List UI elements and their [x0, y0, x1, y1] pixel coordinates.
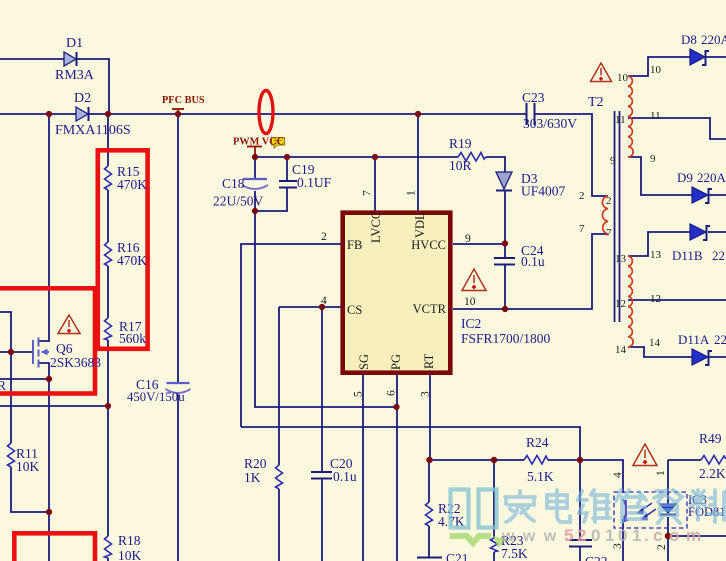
wire CS pin 4 [279, 306, 342, 308]
svg-text:D2: D2 [74, 91, 91, 106]
svg-text:10K: 10K [118, 548, 142, 561]
svg-text:560k: 560k [119, 331, 146, 346]
wire Q6 drain vertical from D2 junction [39, 114, 49, 341]
label R16 [117, 240, 147, 268]
resistor R22 [426, 502, 433, 526]
wire Q6 source to lower net [39, 363, 49, 561]
node VDL tap [415, 111, 421, 117]
wire VDL pin 1 drop [417, 114, 419, 212]
label C16 [127, 377, 185, 404]
diode D3 [496, 172, 512, 191]
node R11 bottom [46, 509, 52, 515]
node label D1 [55, 36, 95, 83]
optocoupler IC3 dashed box [614, 492, 687, 528]
annotation red box bottom left [14, 533, 95, 561]
resistor R18 [105, 536, 112, 558]
wire CS down through R20 [278, 307, 280, 465]
label C18 [213, 176, 264, 209]
wire C20 bottom [321, 478, 323, 561]
svg-text:7.5K: 7.5K [501, 546, 528, 561]
label D11A [678, 332, 726, 347]
svg-text:FMXA1106S: FMXA1106S [55, 123, 131, 138]
svg-text:5: 5 [353, 391, 365, 397]
svg-text:220A: 220A [697, 170, 726, 185]
label IC2 [461, 316, 551, 346]
capacitor C20 [311, 472, 332, 479]
svg-text:R20: R20 [244, 456, 267, 471]
label D8 [681, 32, 726, 47]
svg-text:7: 7 [579, 223, 585, 235]
annotation red ellipse PWM VCC [259, 91, 273, 134]
svg-text:10K: 10K [16, 459, 40, 474]
transformer T2 core [615, 111, 620, 322]
optocoupler IC3 light arrows [638, 503, 656, 520]
label R20 [244, 456, 267, 485]
svg-text:11: 11 [650, 110, 661, 122]
transformer T2 primary winding pins 2-7 [602, 196, 608, 234]
label C24 [521, 243, 545, 269]
label R18 [118, 533, 142, 561]
wire C24 bottom to VCTR node [504, 264, 506, 309]
wire gate line from left edge [0, 351, 32, 353]
svg-text:FB: FB [347, 238, 362, 252]
wire D1 anode from left edge [0, 58, 64, 60]
svg-text:7: 7 [606, 227, 612, 239]
svg-text:2SK3683: 2SK3683 [50, 355, 101, 370]
svg-text:D11B: D11B [672, 248, 703, 263]
label C20 [330, 456, 357, 484]
svg-text:303/630V: 303/630V [523, 116, 577, 131]
wire LVCC pin 7 drop [374, 157, 376, 212]
svg-text:22U/50V: 22U/50V [213, 194, 264, 209]
label R19 [449, 136, 472, 173]
wire R18 bottom [107, 558, 109, 561]
svg-text:10: 10 [464, 296, 476, 308]
node D1-D2 cathode junction [105, 111, 111, 117]
wire D3 cathode to HVCC node [504, 191, 506, 258]
wire SG pin 5 down [362, 373, 364, 561]
wire D11A cathode out [708, 356, 726, 358]
svg-text:1: 1 [406, 190, 418, 196]
svg-text:VCTR: VCTR [413, 302, 447, 316]
capacitor C16 electrolytic [166, 383, 191, 393]
svg-text:9: 9 [465, 233, 471, 245]
annotation red box R15-R17 [98, 150, 148, 348]
svg-text:13: 13 [650, 249, 662, 261]
svg-text:220A: 220A [701, 32, 726, 47]
resistor R49 [701, 456, 726, 465]
svg-text:12: 12 [615, 298, 626, 310]
wire node to R18 [107, 406, 109, 536]
wire R19 right to D3 [486, 157, 505, 172]
node Q6 source [46, 376, 52, 382]
wire D2 row / PFC bus rail [0, 113, 76, 115]
diode D11B [690, 224, 710, 240]
wire opto pin2 out right [668, 535, 726, 537]
node C18 bottom [252, 208, 258, 214]
wire C22 branch [579, 460, 581, 539]
svg-text:LVCC: LVCC [369, 211, 383, 243]
svg-text:11: 11 [615, 114, 626, 126]
svg-text:D9: D9 [677, 170, 693, 185]
node VCTR / C24 [502, 306, 508, 312]
diode D1 [64, 52, 77, 66]
wire T2 pin11 out [628, 118, 726, 139]
svg-text:9: 9 [650, 153, 656, 165]
svg-text:5.1K: 5.1K [527, 469, 554, 484]
svg-text:1: 1 [655, 470, 667, 476]
label R22 [438, 501, 465, 529]
node PWM VCC / C18 [252, 154, 258, 160]
node D2 anode junction [46, 111, 52, 117]
resistor R16 [105, 242, 112, 266]
svg-text:CS: CS [347, 303, 362, 317]
svg-text:PWM VCC: PWM VCC [233, 137, 284, 148]
resistor R19 [458, 153, 486, 162]
wire FB long run to R24 right node [241, 427, 580, 460]
wire C19 bottom lead to C18 node [255, 187, 287, 211]
wire D8 cathode out [706, 56, 726, 58]
svg-text:14: 14 [649, 337, 661, 349]
label Q6 [50, 341, 101, 370]
resistor R24 [524, 456, 548, 465]
wire PWM ground drop to PG pin [255, 211, 396, 407]
node PFC BUS [175, 111, 181, 117]
transistor Q6 MOSFET [33, 338, 49, 368]
node R24 left / R23 [491, 457, 497, 463]
node PG ground tap [393, 404, 399, 410]
wire T2 pin14 jog to D11A [628, 347, 692, 357]
note icon yellow [272, 138, 285, 149]
svg-text:FOD817: FOD817 [688, 505, 726, 519]
wire PG pin 6 down [396, 373, 398, 561]
svg-text:1K: 1K [244, 470, 261, 485]
diode D8 [690, 49, 709, 65]
svg-text:D1: D1 [66, 36, 83, 51]
wire R20 bottom [278, 489, 280, 561]
svg-text:22: 22 [714, 332, 726, 347]
wire gate feed from left edge upper [0, 312, 11, 352]
node RT / R22 [426, 457, 432, 463]
svg-text:RT: RT [422, 353, 436, 369]
svg-text:12: 12 [650, 293, 661, 305]
label D9 [677, 170, 726, 185]
resistor R23 [491, 538, 498, 552]
svg-text:R19: R19 [449, 136, 472, 151]
net tie PWM VCC [247, 147, 262, 155]
transformer T2 secondary winding pins 13-12-14 [628, 256, 633, 347]
wire left edge to R18 node [0, 405, 108, 407]
svg-text:RM3A: RM3A [55, 68, 95, 83]
wire T2 pin9 jog to D9 [628, 157, 692, 195]
diode D11A [692, 349, 712, 365]
label R24 [526, 435, 554, 484]
annotation red box Q6 [0, 288, 95, 393]
resistor R15 [105, 166, 112, 190]
label C19 [292, 162, 332, 190]
label R17 [119, 319, 146, 346]
svg-text:R49: R49 [699, 431, 722, 446]
watermark text 520101 chars [505, 490, 726, 523]
wire R15 to R16 [107, 190, 109, 242]
label IC3 [688, 493, 726, 519]
warning triangle IC2 [462, 269, 486, 291]
svg-text:C22: C22 [585, 554, 608, 561]
wire T2 pin7 to VCTR rail [453, 234, 601, 309]
svg-text:FSFR1700/1800: FSFR1700/1800 [461, 331, 551, 346]
capacitor C21 [417, 557, 442, 559]
node CS / C20 tap [319, 304, 325, 310]
svg-text:9: 9 [610, 155, 616, 167]
svg-text:10: 10 [650, 64, 662, 76]
label D11B [672, 248, 725, 263]
node LVCC tap [372, 154, 378, 160]
svg-text:0.1u: 0.1u [521, 254, 545, 269]
svg-text:22: 22 [712, 248, 725, 263]
wire C18 top lead [254, 157, 256, 179]
capacitor C18 electrolytic [242, 179, 268, 189]
wire source node to left edge [0, 378, 49, 380]
optocoupler IC3 phototransistor [623, 499, 627, 522]
svg-text:0.1UF: 0.1UF [297, 175, 332, 190]
wire C16 bottom down [177, 393, 179, 561]
label R23 [501, 533, 528, 561]
svg-text:450V/150u: 450V/150u [127, 390, 185, 404]
wire opto LED anode from R49 rail [667, 460, 669, 504]
capacitor C22 [569, 540, 592, 547]
optocoupler IC3 LED [660, 504, 676, 515]
svg-text:PG: PG [389, 354, 403, 370]
svg-text:2: 2 [606, 195, 612, 207]
node C19 top [284, 154, 290, 160]
wire R22 branch [428, 460, 430, 502]
svg-text:D8: D8 [681, 32, 697, 47]
wire R22 to C21 [428, 526, 430, 557]
diode D9 [692, 187, 712, 203]
wire R49 left lead [668, 459, 701, 461]
svg-text:T2: T2 [588, 95, 604, 110]
svg-text:470K: 470K [117, 177, 147, 192]
svg-text:R: R [0, 378, 6, 393]
wire T2 pin10 jog to D8 [628, 57, 690, 76]
svg-text:14: 14 [615, 344, 627, 356]
svg-text:4: 4 [321, 295, 327, 307]
watermark www.520101.com [501, 526, 701, 545]
capacitor C23 [527, 103, 535, 125]
warning triangle T2 [591, 63, 612, 82]
svg-text:C18: C18 [222, 176, 245, 191]
wire D11B cathode out [708, 231, 726, 233]
capacitor C19 [279, 181, 297, 188]
svg-text:SG: SG [357, 354, 371, 370]
wire opto LED cathode [667, 517, 669, 561]
wire FB pin 2 [241, 244, 342, 427]
svg-text:10: 10 [617, 72, 629, 84]
watermark book icon [450, 490, 506, 549]
resistor R11 [8, 443, 15, 467]
resistor R17 [105, 318, 112, 340]
wire T2 pin12 out [628, 299, 726, 301]
wire C19 top lead [286, 157, 288, 181]
node label D2 [55, 91, 131, 138]
svg-text:2: 2 [579, 190, 585, 202]
svg-text:Q6: Q6 [56, 341, 73, 356]
wire C23 right to T2 pin2 [535, 114, 601, 196]
svg-text:PFC BUS: PFC BUS [162, 95, 205, 106]
svg-text:C21: C21 [446, 551, 469, 561]
node Q6 gate [8, 349, 14, 355]
wire T2 pin13 jog to D11B [628, 232, 690, 256]
svg-text:.com: .com [644, 526, 701, 545]
node R24 right / C22 [577, 457, 583, 463]
svg-text:VDL: VDL [413, 212, 427, 238]
wire R11 branch from gate node [10, 352, 12, 443]
svg-text:R18: R18 [118, 533, 141, 548]
wire C22 bottom [579, 547, 581, 561]
svg-text:R24: R24 [526, 435, 549, 450]
resistor R20 [276, 465, 283, 489]
wire D9 cathode out [709, 194, 726, 196]
capacitor C24 [494, 258, 515, 265]
wire C20 branch from CS node [321, 307, 323, 472]
label R15 [117, 164, 147, 192]
wire opto emitter down [622, 519, 624, 561]
op-amp IC2 FSFR1700 body [343, 213, 451, 373]
svg-text:D11A: D11A [678, 332, 710, 347]
svg-text:3: 3 [420, 391, 432, 397]
svg-text:HVCC: HVCC [411, 238, 446, 252]
svg-text:4: 4 [612, 472, 624, 478]
wire PWM VCC rail to R19 [255, 156, 458, 158]
label C23 [522, 90, 577, 131]
node R17-R18 [105, 403, 111, 409]
svg-text:470K: 470K [117, 253, 147, 268]
wire R17 to node [107, 340, 109, 406]
svg-text:IC2: IC2 [461, 316, 481, 331]
node HVCC / C24 [502, 240, 508, 246]
wire D1 cathode to corner down [77, 59, 109, 114]
wire R23 bottom [493, 552, 495, 561]
wire R16 to R17 [107, 266, 109, 318]
wire RT pin 3 down [429, 373, 431, 460]
label R49 [699, 431, 726, 481]
svg-text:0.1u: 0.1u [333, 469, 357, 484]
wire T2 primary pin2 lead [601, 195, 608, 197]
svg-text:10R: 10R [449, 158, 472, 173]
svg-text:UF4007: UF4007 [521, 184, 566, 199]
node opto pin2 [665, 533, 671, 539]
wire D2 cathode to C23 left plate [88, 113, 526, 115]
wire R24 right lead [548, 460, 623, 493]
wire T2 primary pin7 lead [601, 233, 608, 235]
wire HVCC pin 9 [453, 243, 505, 245]
transformer T2 secondary winding pins 10-11-9 [628, 76, 633, 157]
diode D2 [76, 107, 89, 121]
svg-text:C23: C23 [522, 90, 545, 105]
wire feedback node rail [430, 459, 524, 461]
wire R23 branch [493, 460, 495, 538]
svg-text:2: 2 [321, 231, 327, 243]
wire R15 chain top [107, 114, 109, 166]
warning triangle IC3 [633, 444, 657, 466]
svg-text:13: 13 [615, 253, 627, 265]
svg-text:6: 6 [386, 390, 398, 396]
svg-text:2.2K: 2.2K [699, 466, 726, 481]
wire PFC bus down to C16 [177, 114, 179, 383]
wire R11 bottom jog to source net [11, 467, 49, 512]
warning triangle Q6 [58, 315, 80, 334]
label R11 [16, 446, 40, 474]
wire C18 bottom lead [254, 191, 256, 211]
svg-text:7: 7 [362, 190, 374, 196]
svg-text:w w w .: w w w . [501, 528, 571, 545]
net tie PFC BUS [172, 109, 184, 112]
label D3 [521, 171, 566, 199]
